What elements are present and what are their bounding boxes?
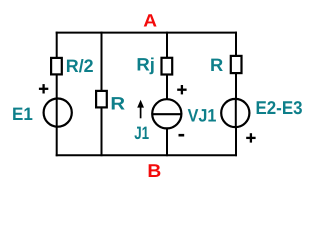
svg-text:Rj: Rj <box>136 55 155 75</box>
arrow J1 (current direction) <box>137 100 144 119</box>
resistor R/2 <box>51 58 62 75</box>
voltage source E1 (circle) <box>44 99 72 127</box>
resistor Rj <box>162 58 173 75</box>
svg-text:R: R <box>210 55 223 75</box>
svg-text:E1: E1 <box>12 104 33 124</box>
wire left branch E1 <box>56 32 58 157</box>
svg-text:B: B <box>147 160 161 181</box>
resistor R (right) <box>231 56 242 73</box>
polarity plus of E1 <box>39 84 48 93</box>
svg-text:R: R <box>110 93 125 113</box>
svg-text:E2-E3: E2-E3 <box>256 97 303 118</box>
wire branch Rj/J1 <box>166 32 168 157</box>
wire branch R <box>101 32 103 157</box>
svg-text:R/2: R/2 <box>66 56 94 76</box>
svg-text:J1: J1 <box>134 123 149 143</box>
polarity plus of E2-E3 <box>246 133 255 142</box>
wire top bus A <box>56 32 237 34</box>
svg-text:VJ1: VJ1 <box>188 106 217 126</box>
voltage source E2-E3 (circle) <box>221 99 249 127</box>
wire bottom bus B <box>56 154 237 156</box>
polarity plus of VJ1 <box>177 85 186 94</box>
resistor R (middle) <box>96 91 107 108</box>
polarity minus of VJ1 <box>179 134 185 137</box>
svg-text:A: A <box>143 11 157 31</box>
wire right branch E2-E3 <box>235 32 237 157</box>
current source J1 (circle with bar) <box>152 99 181 128</box>
